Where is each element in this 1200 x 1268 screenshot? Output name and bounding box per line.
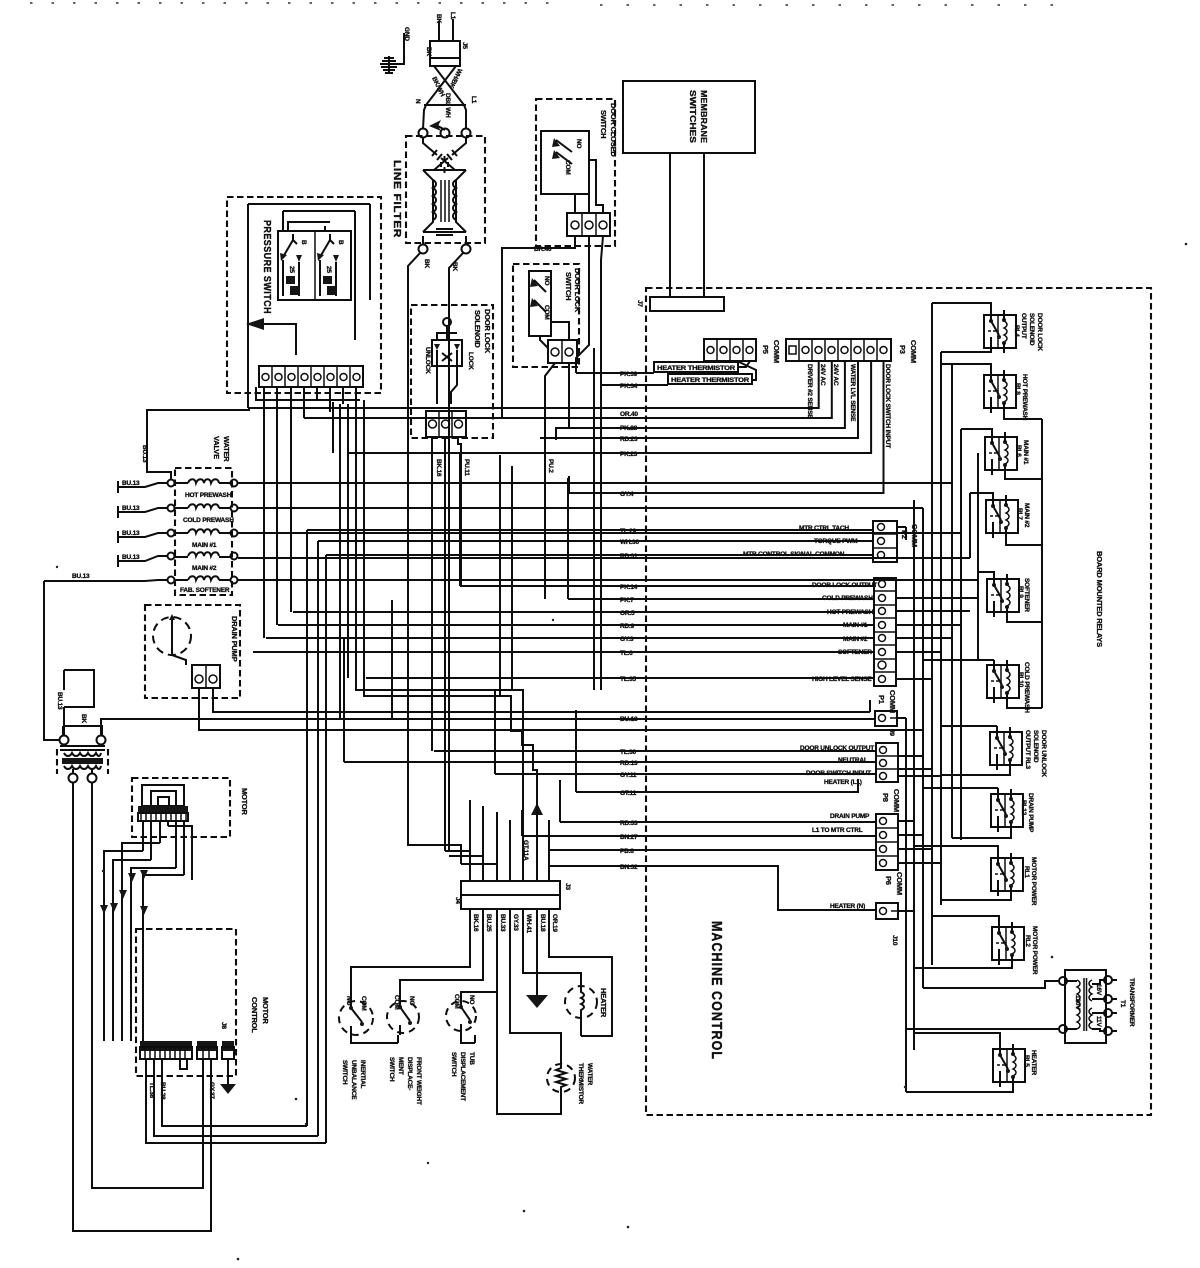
svg-text:COM: COM [453,994,460,1009]
line filter transformer [423,170,466,232]
svg-text:WATER: WATER [586,1063,593,1085]
BK label side [425,47,432,56]
wire N-L1 crossbar [424,104,466,106]
relay RL12 drain pump [991,789,1034,833]
wire from line filter right terminal [449,253,463,296]
pressure switch top wires [248,204,370,366]
wire GY.3 [266,636,874,643]
svg-text:SWITCHES: SWITCHES [688,90,698,143]
svg-text:NO: NO [468,995,475,1004]
svg-text:RL5: RL5 [1023,1055,1030,1067]
svg-text:GY.11: GY.11 [620,772,637,779]
svg-text:DISPLACE-: DISPLACE- [406,1057,413,1090]
wire label C1 BK [423,259,430,268]
svg-text:11V: 11V [1095,1016,1102,1027]
svg-text:BK: BK [425,47,432,56]
svg-text:FRONT WEIGHT: FRONT WEIGHT [415,1057,422,1105]
wire membrane to J7 left [669,153,671,297]
svg-text:TL.6: TL.6 [620,650,633,657]
L1 lead label [449,12,456,20]
door lock solenoid connector [426,411,466,437]
svg-text:J10: J10 [891,935,898,946]
COMM P8 label [881,789,901,812]
tub displacement switch [446,994,476,1043]
P6 pin labels [812,813,870,834]
svg-text:BU.33: BU.33 [499,914,506,932]
svg-text:P2: P2 [900,530,909,539]
water valve stub BU.13 cold [118,505,167,518]
terminal circles above line filter [419,129,471,138]
svg-text:RL10: RL10 [1017,672,1024,688]
J7 label [636,300,643,307]
svg-text:BK: BK [423,259,430,268]
svg-text:T1: T1 [1119,1000,1126,1008]
svg-text:SWITCH: SWITCH [341,1060,348,1085]
svg-text:PRESSURE SWITCH: PRESSURE SWITCH [261,220,272,314]
wire PB.8 [549,848,876,855]
ground at tub [526,995,548,1008]
COMM P3 label [898,340,918,363]
svg-text:PU.11: PU.11 [463,459,470,476]
wire PK.7 [568,597,874,604]
wire TL.35 [366,676,874,683]
svg-text:COLD PREWASH: COLD PREWASH [183,517,234,524]
svg-text:BN.27: BN.27 [620,834,638,841]
svg-text:SWITCH: SWITCH [388,1057,395,1082]
svg-text:DOOR CLOSED: DOOR CLOSED [609,103,618,157]
LINE FILTER label [391,160,402,238]
DOOR CLOSED SWITCH label [599,103,618,157]
pressure switch contact 2 [317,234,344,296]
svg-text:BU.13: BU.13 [122,480,140,487]
wire filter right to machine control (BU.13) [101,719,875,735]
INERTIAL UNBALANCE SWITCH label [341,1060,366,1100]
svg-text:PU.2: PU.2 [547,459,554,473]
svg-text:PK.39: PK.39 [620,371,638,378]
svg-text:HOT PREWASH: HOT PREWASH [1021,374,1028,421]
wire OR.40 [304,361,832,418]
WATER THERMISTOR label [577,1063,593,1104]
svg-text:FAB. SOFTENER: FAB. SOFTENER [180,587,230,594]
svg-text:NO: NO [543,276,550,285]
inertial unbalance switch [339,996,398,1043]
svg-text:BOARD MOUNTED RELAYS: BOARD MOUNTED RELAYS [1095,551,1104,647]
motor control wire labels [148,1082,215,1100]
motor control connector 2 [197,1041,217,1059]
pressure switch box [227,197,381,393]
svg-text:BU.13: BU.13 [122,554,140,561]
svg-text:TRANSFORMER: TRANSFORMER [1128,978,1135,1027]
svg-text:VALVE: VALVE [212,436,221,459]
J5 label [461,42,468,49]
wire RD.31 [326,553,873,560]
relay RL6 main 1 [985,432,1029,475]
svg-text:J3: J3 [564,883,571,890]
svg-text:HEATER (N): HEATER (N) [830,903,865,910]
svg-text:24V AC: 24V AC [832,364,839,386]
wire PK.39 [576,361,750,378]
relay RL8 hot prewash [984,370,1028,421]
PRESSURE SWITCH label [261,220,272,314]
svg-text:N: N [414,99,421,104]
pressure switch contact 1 [280,234,307,296]
heater thermistor box 1 [654,362,738,372]
svg-text:OUTPUT RL3: OUTPUT RL3 [1024,730,1031,769]
svg-text:MOTOR: MOTOR [240,788,249,816]
svg-text:BK: BK [435,14,442,23]
svg-text:TL.35: TL.35 [620,676,637,683]
svg-text:RL6: RL6 [1015,445,1022,457]
wire BU.13 to J9 [620,716,638,723]
svg-text:DOOR UNLOCK: DOOR UNLOCK [1040,730,1047,777]
relay RL3 door unlock solenoid output [990,727,1047,777]
DRAIN PUMP label [230,616,239,662]
water valve stub BU.13 hot [118,480,167,493]
drain pump wires down [199,688,213,712]
svg-text:UNBALANCE: UNBALANCE [350,1060,357,1100]
svg-text:COM: COM [564,160,571,175]
wire PK.34 [602,361,756,390]
svg-text:J5: J5 [461,42,468,49]
DOOR LOCK SWITCH label [564,268,582,313]
relay RL7 main 2 [986,495,1030,538]
door closed switch box [536,99,615,246]
P8 pin labels [800,745,874,786]
svg-text:BR.40: BR.40 [534,246,552,253]
svg-text:L1: L1 [470,96,477,104]
FRONT WEIGHT DISPLACEMENT SWITCH label [388,1057,422,1105]
svg-text:NO: NO [345,996,352,1005]
motor wires down [104,821,192,1041]
door lock solenoid symbol [424,318,474,404]
svg-text:PK.34: PK.34 [620,383,638,390]
relay feed wires [906,303,1117,1092]
svg-text:BN.32: BN.32 [620,864,638,871]
wire TL.29 [307,528,873,535]
COMM P2 label [900,524,919,547]
line filter left wire down [408,296,449,851]
wire RD.9 [278,623,874,630]
HEATER label [599,988,608,1018]
relay RL5 heater [993,1044,1037,1087]
connector J3 J4 [461,881,560,909]
connector J9 [875,711,897,726]
svg-text:OR.40: OR.40 [620,411,638,418]
svg-text:SWITCH: SWITCH [564,272,573,300]
svg-text:SWITCH: SWITCH [599,110,608,138]
svg-text:GY.4: GY.4 [620,491,634,498]
svg-text:BK: BK [451,262,458,271]
door closed switch connector [567,213,610,236]
svg-text:THERMISTOR: THERMISTOR [577,1063,584,1104]
svg-text:BU.13: BU.13 [122,530,140,537]
svg-text:MAIN #1: MAIN #1 [192,542,217,549]
connector P8 [876,743,898,782]
line filter box [406,136,485,243]
J3 label [564,883,571,890]
svg-text:B: B [337,240,344,245]
MACHINE CONTROL label [708,921,724,1060]
svg-text:RD.23: RD.23 [620,436,638,443]
long horizontals upper [248,361,819,408]
svg-text:RL9: RL9 [1017,586,1024,598]
J8 label [220,1022,227,1029]
svg-text:BU.13: BU.13 [56,692,63,710]
COMM P6 label [884,872,904,895]
relay RL9 softener [987,574,1030,617]
svg-text:GT.11: GT.11 [620,790,637,797]
wire PK.14 [460,584,874,591]
TUB DISPLACEMENT SWITCH label [450,1052,475,1101]
J4 label [454,897,461,904]
svg-text:TL.30: TL.30 [620,749,637,756]
wire label BK/WH [430,76,446,98]
MOTOR CONTROL label [250,997,270,1033]
WATER VALVE label [212,436,231,462]
svg-text:120V: 120V [1074,995,1081,1010]
wire BR.40 from door closed switch [502,236,575,418]
GND label [403,27,410,41]
BK lead label [435,14,442,23]
central vertical wires [264,387,360,638]
svg-text:25: 25 [288,266,295,273]
motor inner structure [138,785,188,821]
water valve stub BU.13 main1 [118,530,167,543]
svg-text:PK.23: PK.23 [620,451,638,458]
door closed switch wires down [576,236,603,690]
svg-text:DOOR LOCK: DOOR LOCK [573,268,582,313]
pressure switch connector [259,366,363,387]
line filter bottom terminals [419,236,471,254]
COMM P1 label [877,690,897,713]
wire GY.11 [495,772,876,779]
drain pump box [145,605,240,698]
motor control connector 1 [140,1041,192,1059]
wire RD.13 [344,760,876,767]
svg-text:COMM: COMM [892,789,901,812]
svg-text:GY.33: GY.33 [512,914,519,931]
svg-text:RD.13: RD.13 [620,760,638,767]
svg-text:MAIN #1: MAIN #1 [1022,440,1029,465]
svg-text:MAIN #2: MAIN #2 [192,565,217,572]
heater element [565,986,597,1036]
svg-text:RL12: RL12 [1020,800,1027,816]
svg-text:P8: P8 [881,793,890,802]
svg-text:WH.30: WH.30 [620,539,639,546]
svg-text:DRAIN PUMP: DRAIN PUMP [830,813,870,820]
door solenoid connector wires down [432,437,470,851]
line filter bottom bar [423,229,466,235]
svg-text:OUTPUT: OUTPUT [1020,313,1027,339]
svg-text:DRIVER #2 SENSE: DRIVER #2 SENSE [806,364,813,419]
drain pump wires right [199,700,923,756]
wire water valve top BU.13 [141,410,250,479]
svg-text:UNLOCK: UNLOCK [424,347,431,374]
svg-text:DOOR LOCK SWITCH INPUT: DOOR LOCK SWITCH INPUT [884,364,891,448]
water valve right wires [238,483,978,580]
svg-text:LOCK: LOCK [467,352,474,370]
wire PK.28 [556,361,845,432]
wire WH.30 [318,539,873,546]
wire from pressure switch bottom left [248,366,287,408]
line filter capacitors [423,138,466,173]
membrane switches box [623,81,755,153]
wire PK.23 [348,361,871,458]
svg-text:MAIN #2: MAIN #2 [1023,503,1030,528]
connector heater N [876,903,898,919]
svg-text:NO: NO [575,139,582,148]
HEATER (N) label [830,903,865,910]
wire TL.30 [434,749,876,756]
wire J5 to line filter (trapezoid) [423,66,466,129]
left bus verticals [307,348,594,1143]
svg-text:RL4: RL4 [1013,325,1020,337]
staircase wires to J3 [344,358,576,874]
svg-text:OR.19: OR.19 [551,914,558,932]
wire from line filter left terminal [408,253,420,296]
svg-text:24V AC: 24V AC [819,364,826,386]
svg-text:DRAIN PUMP: DRAIN PUMP [1027,793,1034,833]
wire left loop BU.13 [44,581,59,740]
relay RL2 motor power [992,922,1038,975]
wire membrane to J7 right [703,153,705,297]
front weight displacement switch [387,995,419,1035]
door closed switch wires to connector [575,160,603,213]
P1 pin labels [812,582,877,683]
relay bus horizontal taps from connectors [896,527,978,911]
J10 label [891,935,898,946]
svg-text:RL7: RL7 [1016,508,1023,520]
wire BN.32 [549,864,876,910]
J4 bottom wire labels [472,914,558,933]
node L1 label [470,96,477,104]
DOOR LOCK SOLENOID label [473,309,492,354]
wire label L1 BK [451,262,458,271]
svg-text:DOOR LOCK: DOOR LOCK [483,309,492,354]
wire loop above filter [64,670,94,735]
svg-text:COLD PREWASH: COLD PREWASH [1023,662,1030,713]
svg-text:COM: COM [543,305,550,320]
svg-text:BK: BK [80,714,87,723]
svg-text:BU.18: BU.18 [539,914,546,932]
connector P2 [873,521,897,562]
transformer T1 [1059,970,1112,1043]
arrow on wire x537 [522,803,543,861]
svg-text:P5: P5 [761,345,770,354]
relay RL1 motor power [991,853,1037,906]
svg-text:HEATER: HEATER [1030,1050,1037,1076]
wire RD.23 [540,361,858,443]
wire RD.33 [560,820,876,827]
svg-text:LINE FILTER: LINE FILTER [391,160,402,238]
connector P3 [786,339,891,361]
svg-text:P1: P1 [877,695,886,704]
door lock solenoid box [411,305,493,438]
BU.13 label vertical left [56,692,63,710]
svg-text:MOTOR POWER: MOTOR POWER [1031,926,1038,975]
connector P6 [876,814,898,870]
svg-text:INERTIAL: INERTIAL [359,1060,366,1089]
svg-text:J7: J7 [636,300,643,307]
water valve stub BU.13 main2 [118,554,167,567]
water thermistor [547,1064,575,1092]
svg-text:BU.13: BU.13 [141,445,148,463]
svg-text:COMM: COMM [772,340,781,363]
BOARD MOUNTED RELAYS label [1095,551,1104,647]
svg-text:COM: COM [393,995,400,1010]
pressure switch arrow [246,318,296,355]
svg-text:RL1: RL1 [1023,866,1030,878]
svg-text:PK.14: PK.14 [620,584,638,591]
door lock switch box [513,264,579,367]
svg-text:RL8: RL8 [1014,383,1021,395]
svg-text:DISPLACEMENT: DISPLACEMENT [459,1052,466,1101]
water valve coil main 2 [168,552,238,572]
left interference filter [57,714,108,783]
motor control U loop [180,1059,187,1069]
svg-text:TUB: TUB [468,1052,475,1065]
MEMBRANE SWITCHES label [688,90,709,143]
J9 label [888,729,895,736]
COMM P5 label [761,340,781,363]
svg-text:OR.5: OR.5 [620,610,635,617]
J3 top wire stubs [408,719,549,881]
svg-text:COMM: COMM [909,340,918,363]
connector P1 [874,578,896,686]
ground [380,33,404,73]
pressure switch inner box [278,231,351,300]
wire GY.4 [569,361,884,498]
water valve coil main 1 [168,529,238,549]
svg-text:HOT PREWASH: HOT PREWASH [185,492,232,499]
P3 pin labels rotated [806,364,891,448]
svg-text:DOOR LOCK: DOOR LOCK [1036,313,1043,351]
wire GT.11 [576,779,858,797]
svg-text:J8: J8 [220,1022,227,1029]
water valve coil hot prewash [168,479,238,499]
wire TL.6 [253,650,874,657]
heater thermistor box 2 [668,374,752,384]
svg-text:PB.8: PB.8 [620,848,634,855]
svg-text:DBL WH: DBL WH [444,93,451,118]
MOTOR label [240,788,249,816]
svg-text:DRAIN PUMP: DRAIN PUMP [230,616,239,662]
svg-text:MOTOR: MOTOR [261,997,270,1025]
water valve coil fab softener [168,576,238,594]
svg-text:NO: NO [408,996,415,1005]
door lock switch connector [540,322,577,363]
svg-text:WATER: WATER [222,436,231,462]
svg-text:MEMBRANE: MEMBRANE [699,90,709,143]
DBL WH label [444,93,451,118]
door closed switch inner box [541,131,589,194]
svg-text:PK.7: PK.7 [620,597,634,604]
svg-text:COMM: COMM [888,690,897,713]
svg-text:P6: P6 [884,876,893,885]
door lock switch wires down [545,363,569,599]
svg-text:HEATER (L1): HEATER (L1) [824,779,862,786]
relay RL10 cold prewash [987,660,1030,713]
svg-text:BU.13: BU.13 [620,716,638,723]
svg-text:BK.16: BK.16 [472,914,479,932]
svg-text:RL2: RL2 [1024,935,1031,947]
svg-text:RD.33: RD.33 [620,820,638,827]
wire OR.5 [293,610,874,617]
motor control ground arrow [220,1059,236,1094]
svg-text:BU.13: BU.13 [72,573,90,580]
T1 TRANSFORMER label [1119,978,1135,1027]
svg-text:B: B [300,240,307,245]
